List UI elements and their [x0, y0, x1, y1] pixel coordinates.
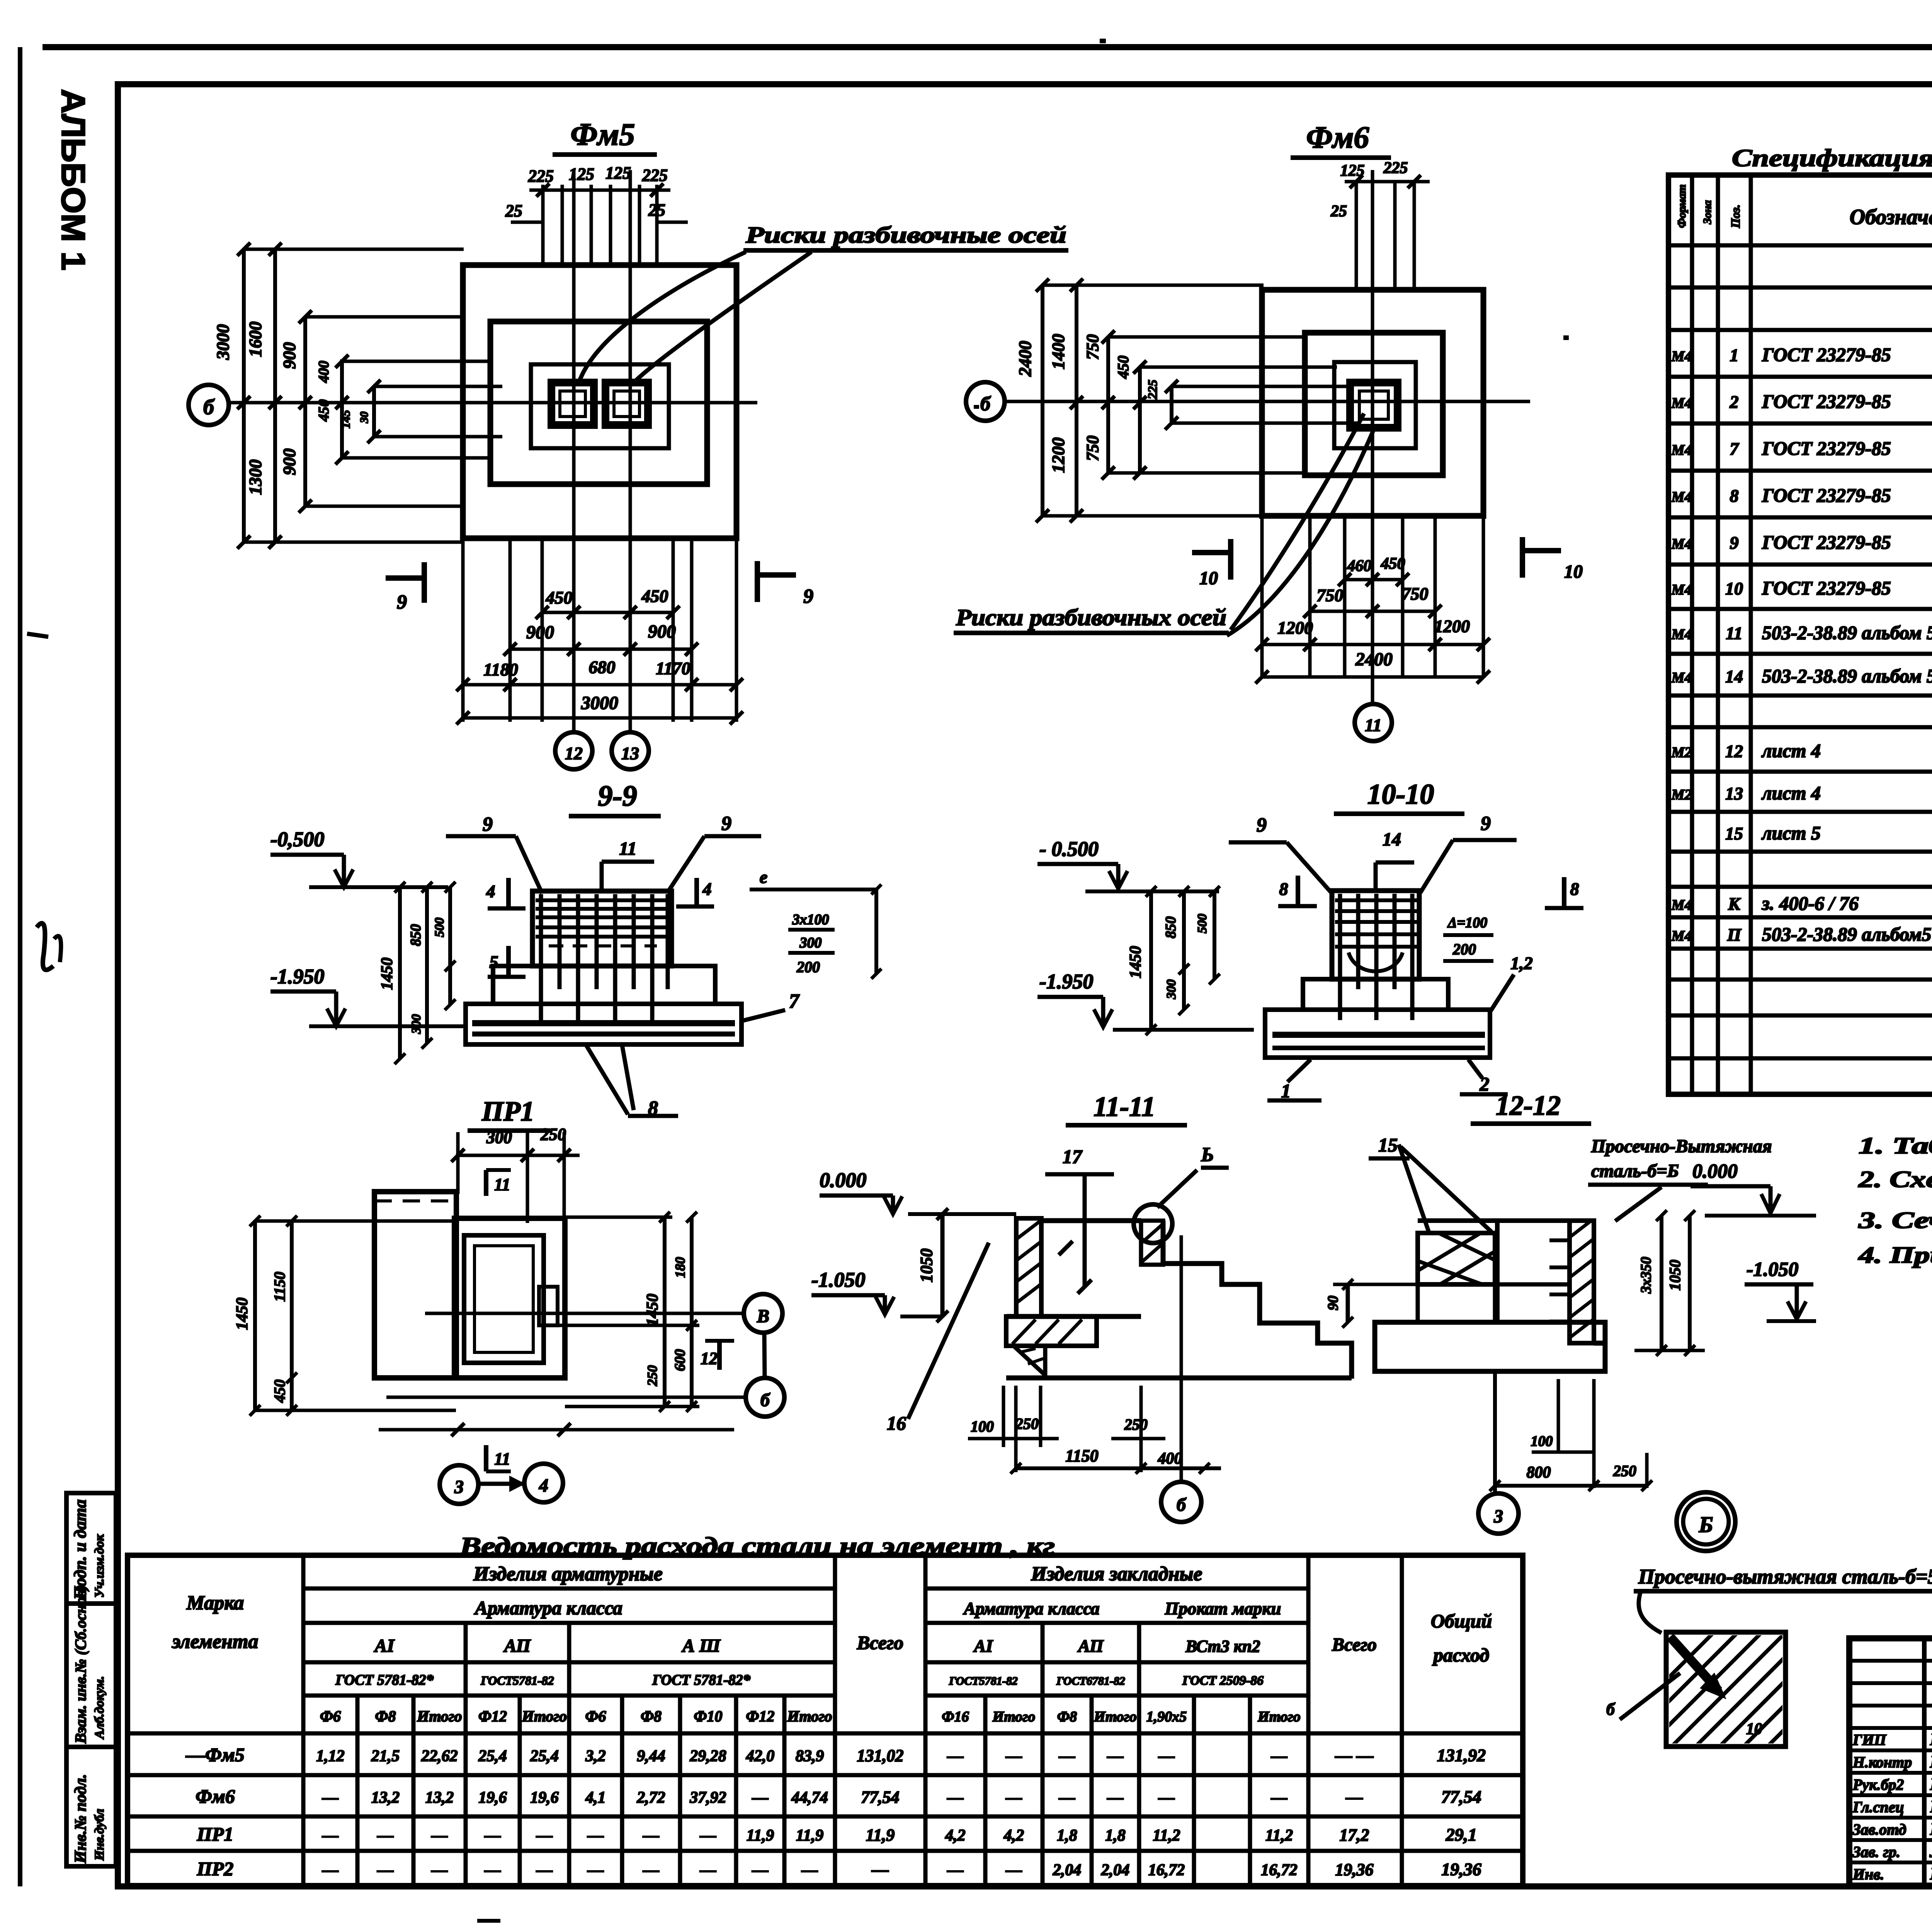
svg-text:ГОСТ 23279-85: ГОСТ 23279-85 — [1762, 531, 1891, 553]
svg-text:А Ш: А Ш — [681, 1636, 721, 1656]
svg-text:—: — — [536, 1827, 553, 1845]
svg-text:4,2: 4,2 — [1003, 1827, 1024, 1845]
svg-text:0.000: 0.000 — [1692, 1160, 1738, 1182]
svg-text:300: 300 — [799, 935, 822, 951]
PR1 right notch — [539, 1287, 558, 1325]
svg-text:Арматура класса: Арматура класса — [474, 1597, 622, 1619]
svg-text:1600: 1600 — [245, 321, 265, 357]
svg-text:—: — — [377, 1861, 394, 1879]
svg-text:13: 13 — [1725, 784, 1743, 803]
svg-text:Прокат марки: Прокат марки — [1165, 1599, 1281, 1618]
svg-text:10: 10 — [1564, 561, 1583, 582]
steel table outer border — [128, 1555, 1523, 1886]
svg-text:—: — — [752, 1861, 769, 1879]
svg-text:300: 300 — [409, 1014, 423, 1034]
svg-text:2400: 2400 — [1355, 649, 1393, 670]
svg-text:АЛЬБОМ 1: АЛЬБОМ 1 — [54, 89, 92, 270]
svg-text:Поз.: Поз. — [1728, 204, 1742, 228]
svg-text:900: 900 — [648, 621, 676, 642]
svg-text:Уч.изм.док: Уч.изм.док — [92, 1534, 107, 1598]
svg-text:ГОСТ 23279-85: ГОСТ 23279-85 — [1762, 391, 1891, 412]
svg-text:25,4: 25,4 — [478, 1747, 507, 1765]
svg-text:10-10: 10-10 — [1367, 779, 1434, 810]
svg-text:элемента: элемента — [172, 1631, 259, 1653]
Fm5 axis line B horizontal — [229, 401, 757, 405]
svg-text:—: — — [322, 1789, 338, 1807]
svg-text:8: 8 — [1730, 486, 1739, 506]
svg-text:1150: 1150 — [1065, 1446, 1099, 1465]
9-9 pedestal with rebar mesh — [532, 891, 672, 966]
svg-text:Фм5: Фм5 — [571, 117, 635, 152]
svg-text:Обозначение: Обозначение — [1850, 205, 1932, 229]
12-12 bottom dims — [1493, 1371, 1497, 1493]
svg-text:503-2-38.89 альбом 5: 503-2-38.89 альбом 5 — [1762, 622, 1932, 643]
svg-text:15: 15 — [1725, 824, 1743, 844]
axis circle 3 — [440, 1465, 478, 1504]
svg-text:4: 4 — [539, 1475, 548, 1496]
svg-text:19,6: 19,6 — [478, 1789, 507, 1807]
svg-text:100: 100 — [1531, 1433, 1553, 1449]
svg-text:11-11: 11-11 — [1094, 1091, 1155, 1122]
svg-text:Итого: Итого — [1094, 1709, 1137, 1725]
svg-text:Рубан: Рубан — [1930, 1797, 1932, 1816]
svg-text:Формат: Формат — [1675, 184, 1688, 228]
svg-text:Ф10: Ф10 — [694, 1708, 722, 1725]
12-12 right dims — [1660, 1216, 1663, 1350]
svg-text:ВСт3 кп2: ВСт3 кп2 — [1185, 1637, 1260, 1656]
leader curve to Fm6 column — [1231, 413, 1364, 630]
svg-text:ГОСТ 2509-86: ГОСТ 2509-86 — [1182, 1673, 1264, 1688]
svg-text:1200: 1200 — [1434, 616, 1470, 636]
12-12 wall white — [1497, 1221, 1570, 1322]
svg-text:—: — — [484, 1861, 501, 1879]
svg-text:850: 850 — [408, 924, 424, 946]
svg-text:90: 90 — [1325, 1296, 1341, 1310]
9-9 left dimension lines — [398, 887, 402, 1059]
svg-text:Ф12: Ф12 — [746, 1708, 774, 1725]
svg-text:750: 750 — [1083, 435, 1102, 461]
left margin handwritten marks — [37, 923, 53, 970]
svg-text:460: 460 — [1347, 557, 1372, 575]
svg-text:1050: 1050 — [1666, 1260, 1684, 1291]
svg-text:Ф6: Ф6 — [320, 1708, 341, 1725]
svg-text:2400: 2400 — [1015, 341, 1035, 377]
svg-text:19,36: 19,36 — [1335, 1860, 1374, 1879]
svg-text:ГОСТ 5781-82*: ГОСТ 5781-82* — [652, 1672, 751, 1688]
spec table vertical lines — [1690, 175, 1694, 1094]
page top border line — [43, 44, 1932, 50]
svg-text:225: 225 — [642, 166, 668, 185]
svg-text:25: 25 — [1330, 202, 1347, 220]
svg-text:180: 180 — [672, 1257, 688, 1278]
svg-text:9,44: 9,44 — [637, 1747, 665, 1765]
svg-text:АI: АI — [374, 1636, 395, 1656]
svg-text:8: 8 — [1279, 879, 1288, 899]
svg-text:—: — — [1107, 1789, 1124, 1807]
svg-text:Всего: Всего — [857, 1632, 904, 1653]
svg-text:13: 13 — [621, 743, 639, 763]
10-10 column dowels — [1338, 894, 1342, 1020]
svg-text:лист 5: лист 5 — [1761, 822, 1821, 844]
svg-text:—: — — [643, 1827, 659, 1845]
Fm6 axis line B horizontal — [1005, 400, 1530, 403]
PR1 section mark 11 bottom — [484, 1445, 488, 1471]
svg-text:АI: АI — [973, 1636, 994, 1656]
svg-text:900: 900 — [279, 449, 299, 475]
svg-text:3х350: 3х350 — [1638, 1257, 1654, 1294]
svg-text:Ф12: Ф12 — [478, 1708, 507, 1725]
svg-text:77,54: 77,54 — [861, 1788, 900, 1807]
svg-text:9-9: 9-9 — [598, 780, 637, 812]
svg-text:3000: 3000 — [581, 693, 618, 713]
12-12 prosechno wall strip hatched — [1570, 1221, 1594, 1343]
svg-text:300: 300 — [486, 1128, 512, 1147]
9-9 section mark 4 right — [694, 878, 699, 906]
Fm6 column cross-section — [1350, 383, 1398, 428]
svg-text:-1.050: -1.050 — [811, 1268, 865, 1291]
9-9 column dowels — [539, 894, 543, 1020]
detail B thick diagonal arrow — [1670, 1637, 1719, 1691]
svg-text:1,8: 1,8 — [1057, 1827, 1077, 1845]
page left scan edge line — [18, 47, 22, 1886]
svg-text:1050: 1050 — [917, 1248, 936, 1282]
svg-text:М4: М4 — [1671, 536, 1692, 552]
svg-text:3х100: 3х100 — [792, 912, 829, 928]
svg-text:2,72: 2,72 — [636, 1789, 665, 1807]
9-9 dashed line in pedestal — [549, 944, 657, 947]
svg-text:25,4: 25,4 — [530, 1747, 559, 1765]
svg-text:ГОСТ 23279-85: ГОСТ 23279-85 — [1762, 344, 1891, 366]
spec table outer border — [1668, 175, 1932, 1094]
svg-text:б: б — [980, 393, 991, 415]
Fm5 column 1 cross-section — [551, 383, 594, 425]
svg-text:—: — — [322, 1827, 338, 1845]
svg-text:1200: 1200 — [1048, 437, 1068, 473]
Fm5 axis line 12 vertical — [572, 170, 576, 732]
svg-text:Спецификация фундаментов Фм5,: Спецификация фундаментов Фм5, Фм6, приям… — [1732, 144, 1932, 172]
svg-text:-1.950: -1.950 — [1039, 970, 1093, 993]
svg-text:145: 145 — [338, 410, 352, 429]
svg-text:9: 9 — [1481, 813, 1491, 835]
svg-text:13,2: 13,2 — [371, 1789, 400, 1807]
svg-text:М2: М2 — [1671, 787, 1692, 803]
svg-text:—: — — [947, 1789, 964, 1807]
9-9 base slab — [466, 1004, 742, 1044]
Fm5 axis line 13 vertical — [629, 170, 632, 732]
svg-text:М4: М4 — [1671, 928, 1692, 944]
svg-text:3,2: 3,2 — [585, 1747, 606, 1765]
svg-text:600: 600 — [672, 1349, 688, 1371]
11-11 floor top edge — [1041, 1218, 1141, 1223]
svg-text:9: 9 — [483, 813, 493, 835]
svg-text:2,04: 2,04 — [1101, 1861, 1130, 1879]
svg-text:1150: 1150 — [271, 1272, 288, 1302]
svg-text:Ф16: Ф16 — [942, 1709, 969, 1725]
PR1 top dimension line — [456, 1154, 580, 1157]
svg-text:з. 400-6 / 76: з. 400-6 / 76 — [1761, 893, 1859, 914]
Fm6 bottom extension lines — [1260, 516, 1264, 678]
svg-text:—: — — [700, 1861, 716, 1879]
svg-text:750: 750 — [1317, 585, 1344, 605]
svg-text:9: 9 — [721, 813, 731, 835]
svg-text:2. Схемы раскладки сеток ,: 2. Схемы раскладки сеток , сечения 4-4, … — [1858, 1167, 1932, 1192]
11-11 right wall upper hatched — [1141, 1221, 1163, 1265]
Fm6 bottom dimension lines — [1345, 578, 1403, 582]
svg-text:Рук.бр2: Рук.бр2 — [1852, 1776, 1904, 1793]
svg-text:450: 450 — [316, 400, 332, 422]
svg-text:500: 500 — [432, 918, 447, 937]
svg-text:11: 11 — [1726, 623, 1742, 643]
svg-text:77,54: 77,54 — [1441, 1787, 1481, 1807]
Fm6 outer footing square — [1262, 290, 1483, 516]
svg-text:лист 4: лист 4 — [1761, 740, 1821, 762]
svg-text:б: б — [1606, 1700, 1616, 1719]
Fm5 left dimension lines — [242, 249, 246, 542]
Fm6 left dimension lines — [1041, 285, 1044, 516]
svg-text:б: б — [760, 1390, 770, 1410]
axis circle 11 — [1355, 704, 1392, 741]
svg-text:-1.950: -1.950 — [270, 965, 324, 988]
axis circle V right — [744, 1294, 782, 1333]
svg-text:—: — — [871, 1860, 889, 1879]
11-11 pit floor line — [1007, 1314, 1141, 1319]
9-9 section mark 5 left — [506, 946, 511, 977]
svg-text:—: — — [1059, 1789, 1075, 1807]
svg-text:11: 11 — [494, 1449, 510, 1468]
svg-text:16: 16 — [887, 1412, 906, 1434]
svg-text:—: — — [431, 1861, 448, 1879]
svg-text:2: 2 — [1730, 392, 1739, 412]
svg-text:37,92: 37,92 — [689, 1789, 726, 1807]
svg-text:М4: М4 — [1671, 582, 1692, 598]
svg-text:7: 7 — [1730, 439, 1740, 459]
section mark 9 right — [757, 572, 796, 578]
svg-text:200: 200 — [1452, 940, 1476, 958]
svg-text:Итого: Итого — [522, 1708, 567, 1725]
svg-text:Ф8: Ф8 — [1057, 1709, 1077, 1725]
svg-text:—: — — [431, 1827, 448, 1845]
svg-text:1180: 1180 — [483, 660, 518, 679]
svg-text:503-2-38.89 альбом5: 503-2-38.89 альбом5 — [1762, 923, 1931, 945]
PR1 left wall rectangle — [374, 1192, 456, 1378]
svg-text:б: б — [203, 395, 215, 419]
svg-text:4: 4 — [486, 881, 495, 901]
svg-text:500: 500 — [1195, 914, 1209, 934]
svg-text:1,90х5: 1,90х5 — [1146, 1709, 1187, 1725]
vertical label ALBOM 1 — [54, 89, 92, 270]
svg-text:131,92: 131,92 — [1437, 1745, 1486, 1765]
svg-text:750: 750 — [1083, 334, 1102, 360]
svg-text:Марка: Марка — [186, 1592, 244, 1614]
svg-text:Изделия закладные: Изделия закладные — [1031, 1563, 1202, 1585]
svg-text:ПР1: ПР1 — [197, 1823, 233, 1845]
section mark 10 left — [1192, 550, 1231, 555]
svg-text:900: 900 — [279, 342, 299, 369]
svg-text:450: 450 — [641, 586, 668, 606]
Fm6 inner footing step — [1334, 362, 1416, 448]
11-11 bottom line — [1006, 1376, 1352, 1381]
svg-text:—: — — [947, 1747, 964, 1765]
svg-text:450: 450 — [1381, 555, 1405, 573]
svg-text:9: 9 — [397, 591, 407, 613]
steel table vertical lines — [301, 1555, 306, 1886]
svg-text:21,5: 21,5 — [371, 1747, 400, 1765]
svg-text:б: б — [1177, 1495, 1187, 1515]
svg-text:ГОСТ6781-82: ГОСТ6781-82 — [1056, 1675, 1125, 1687]
svg-text:125: 125 — [605, 163, 631, 182]
svg-text:ГОСТ 23279-85: ГОСТ 23279-85 — [1762, 577, 1891, 599]
svg-text:225: 225 — [1383, 159, 1408, 177]
svg-text:Голубева: Голубева — [1930, 1752, 1932, 1771]
svg-text:—: — — [1005, 1747, 1022, 1765]
svg-text:4. Приямок ПР2 см. лист 19: 4. Приямок ПР2 см. лист 19 — [1858, 1242, 1932, 1268]
svg-text:АП: АП — [1077, 1636, 1104, 1656]
svg-text:900: 900 — [526, 622, 554, 643]
spec table horizontal lines — [1668, 243, 1932, 248]
svg-text:22,62: 22,62 — [421, 1747, 458, 1765]
svg-text:25: 25 — [505, 201, 522, 220]
svg-text:расход: расход — [1432, 1644, 1489, 1666]
svg-text:16,72: 16,72 — [1261, 1861, 1298, 1879]
svg-text:8: 8 — [1570, 879, 1579, 899]
svg-text:лист 4: лист 4 — [1761, 782, 1821, 804]
svg-text:29,1: 29,1 — [1446, 1825, 1477, 1845]
svg-text:250: 250 — [1015, 1415, 1039, 1432]
svg-text:Просечно-вытяжная сталь-б=5: Просечно-вытяжная сталь-б=5 — [1638, 1565, 1932, 1588]
leader curves to Fm5 columns — [580, 252, 746, 381]
svg-text:Гл.спец: Гл.спец — [1852, 1798, 1904, 1816]
svg-text:11,9: 11,9 — [747, 1827, 774, 1845]
svg-text:ГОСТ 23279-85: ГОСТ 23279-85 — [1762, 485, 1891, 506]
Fm6 axis line 11 vertical — [1371, 170, 1374, 704]
svg-text:3: 3 — [454, 1477, 464, 1497]
svg-text:250: 250 — [540, 1125, 566, 1144]
svg-text:11,2: 11,2 — [1153, 1827, 1180, 1845]
PR1 axis line B horizontal — [386, 1396, 746, 1399]
svg-text:—: — — [1005, 1861, 1022, 1879]
svg-text:сталь-б=Б: сталь-б=Б — [1591, 1161, 1679, 1181]
10-10 middle footing step — [1303, 979, 1448, 1010]
svg-text:450: 450 — [271, 1379, 288, 1403]
svg-text:Просечно-Вытяжная: Просечно-Вытяжная — [1591, 1136, 1772, 1156]
svg-text:Итого: Итого — [1257, 1709, 1301, 1725]
11-11 axis line to circle b — [1180, 1235, 1183, 1481]
9-9 section mark 4 left — [506, 878, 511, 908]
11-11 bottom dims — [1002, 1386, 1005, 1447]
svg-text:11,9: 11,9 — [796, 1827, 823, 1845]
svg-text:1300: 1300 — [245, 459, 265, 495]
svg-text:Фм6: Фм6 — [1306, 121, 1369, 155]
axis circle B below 11-11 — [1161, 1482, 1201, 1522]
svg-text:400: 400 — [1158, 1450, 1182, 1468]
svg-text:-1.050: -1.050 — [1747, 1259, 1798, 1281]
svg-text:Шаныгин: Шаныгин — [1930, 1730, 1932, 1749]
svg-text:М4: М4 — [1671, 626, 1692, 643]
svg-text:1,12: 1,12 — [316, 1747, 345, 1765]
svg-text:10: 10 — [1725, 579, 1743, 599]
svg-text:Взам. инв.№ (Сб.основ): Взам. инв.№ (Сб.основ) — [72, 1585, 89, 1744]
svg-text:Общий: Общий — [1431, 1610, 1492, 1632]
11-11 footing hatched — [1006, 1316, 1097, 1346]
axis circle B — [189, 385, 229, 425]
scan speckle marks — [1100, 39, 1106, 43]
svg-text:450: 450 — [1114, 355, 1132, 379]
svg-text:17: 17 — [1063, 1146, 1083, 1167]
section mark 9 left — [386, 575, 424, 581]
svg-text:750: 750 — [1402, 584, 1429, 604]
9-9 middle footing step — [493, 966, 715, 1004]
PR1 dashed top line — [374, 1199, 456, 1202]
svg-text:Б: Б — [1699, 1512, 1713, 1537]
left margin stamp strip — [66, 1493, 116, 1866]
svg-text:450: 450 — [546, 588, 573, 607]
svg-text:— —: — — — [1335, 1746, 1374, 1765]
svg-text:11: 11 — [619, 838, 636, 859]
svg-text:ГОСТ 5781-82*: ГОСТ 5781-82* — [335, 1672, 434, 1688]
svg-text:19,6: 19,6 — [530, 1789, 559, 1807]
svg-text:680: 680 — [589, 657, 616, 677]
svg-text:—: — — [587, 1827, 604, 1845]
Fm6 middle footing step — [1305, 333, 1443, 475]
10-10 slab rebar heavy bars — [1272, 1032, 1485, 1038]
arrow between 3 and 4 — [479, 1482, 524, 1486]
svg-text:Зав. гр.: Зав. гр. — [1852, 1843, 1900, 1861]
svg-text:11: 11 — [494, 1175, 510, 1194]
svg-text:е: е — [760, 867, 767, 887]
12-12 step bottom right — [1594, 1343, 1605, 1350]
svg-text:1450: 1450 — [233, 1298, 251, 1330]
svg-text:—: — — [1345, 1788, 1363, 1807]
12-12 base slab — [1375, 1322, 1605, 1371]
PR1 bottom dimension line — [379, 1428, 734, 1432]
svg-text:7: 7 — [789, 990, 800, 1012]
svg-text:Изделия арматурные: Изделия арматурные — [473, 1563, 663, 1585]
svg-text:М4: М4 — [1671, 442, 1692, 458]
svg-text:Риски разбивочных осей: Риски разбивочных осей — [956, 605, 1226, 630]
svg-text:—: — — [322, 1861, 338, 1879]
svg-text:Лавренко: Лавренко — [1929, 1842, 1932, 1861]
svg-text:ГОСТ5781-82: ГОСТ5781-82 — [480, 1673, 554, 1687]
svg-text:—: — — [752, 1789, 769, 1807]
12-12 wall left ticks — [1549, 1238, 1570, 1242]
svg-text:—: — — [587, 1861, 604, 1879]
svg-text:Инв.№ подл.: Инв.№ подл. — [72, 1774, 90, 1864]
10-10 section mark 8 left — [1296, 876, 1300, 906]
svg-text:—: — — [801, 1861, 818, 1879]
svg-text:М4: М4 — [1671, 670, 1692, 686]
svg-text:800: 800 — [1527, 1464, 1551, 1481]
axis circle B right — [746, 1378, 784, 1417]
svg-text:4: 4 — [702, 879, 712, 899]
detail B label leader — [1639, 1593, 1662, 1633]
svg-text:250: 250 — [1613, 1462, 1636, 1480]
svg-text:Качув: Качув — [1930, 1820, 1932, 1838]
svg-text:200: 200 — [796, 958, 820, 976]
svg-text:9: 9 — [803, 585, 813, 607]
Fm5 bottom extension lines — [461, 538, 465, 722]
svg-text:Ф6: Ф6 — [585, 1708, 606, 1725]
Fm5 top extension lines — [541, 185, 545, 265]
svg-text:9: 9 — [1730, 533, 1739, 553]
svg-text:—: — — [536, 1861, 553, 1879]
10-10 base slab — [1265, 1010, 1490, 1058]
section mark 10 right — [1522, 548, 1561, 553]
svg-text:10: 10 — [1746, 1720, 1762, 1738]
svg-text:12: 12 — [701, 1349, 718, 1368]
svg-text:300: 300 — [1164, 980, 1179, 1000]
svg-text:—: — — [1158, 1747, 1175, 1765]
svg-text:12: 12 — [1725, 742, 1743, 761]
